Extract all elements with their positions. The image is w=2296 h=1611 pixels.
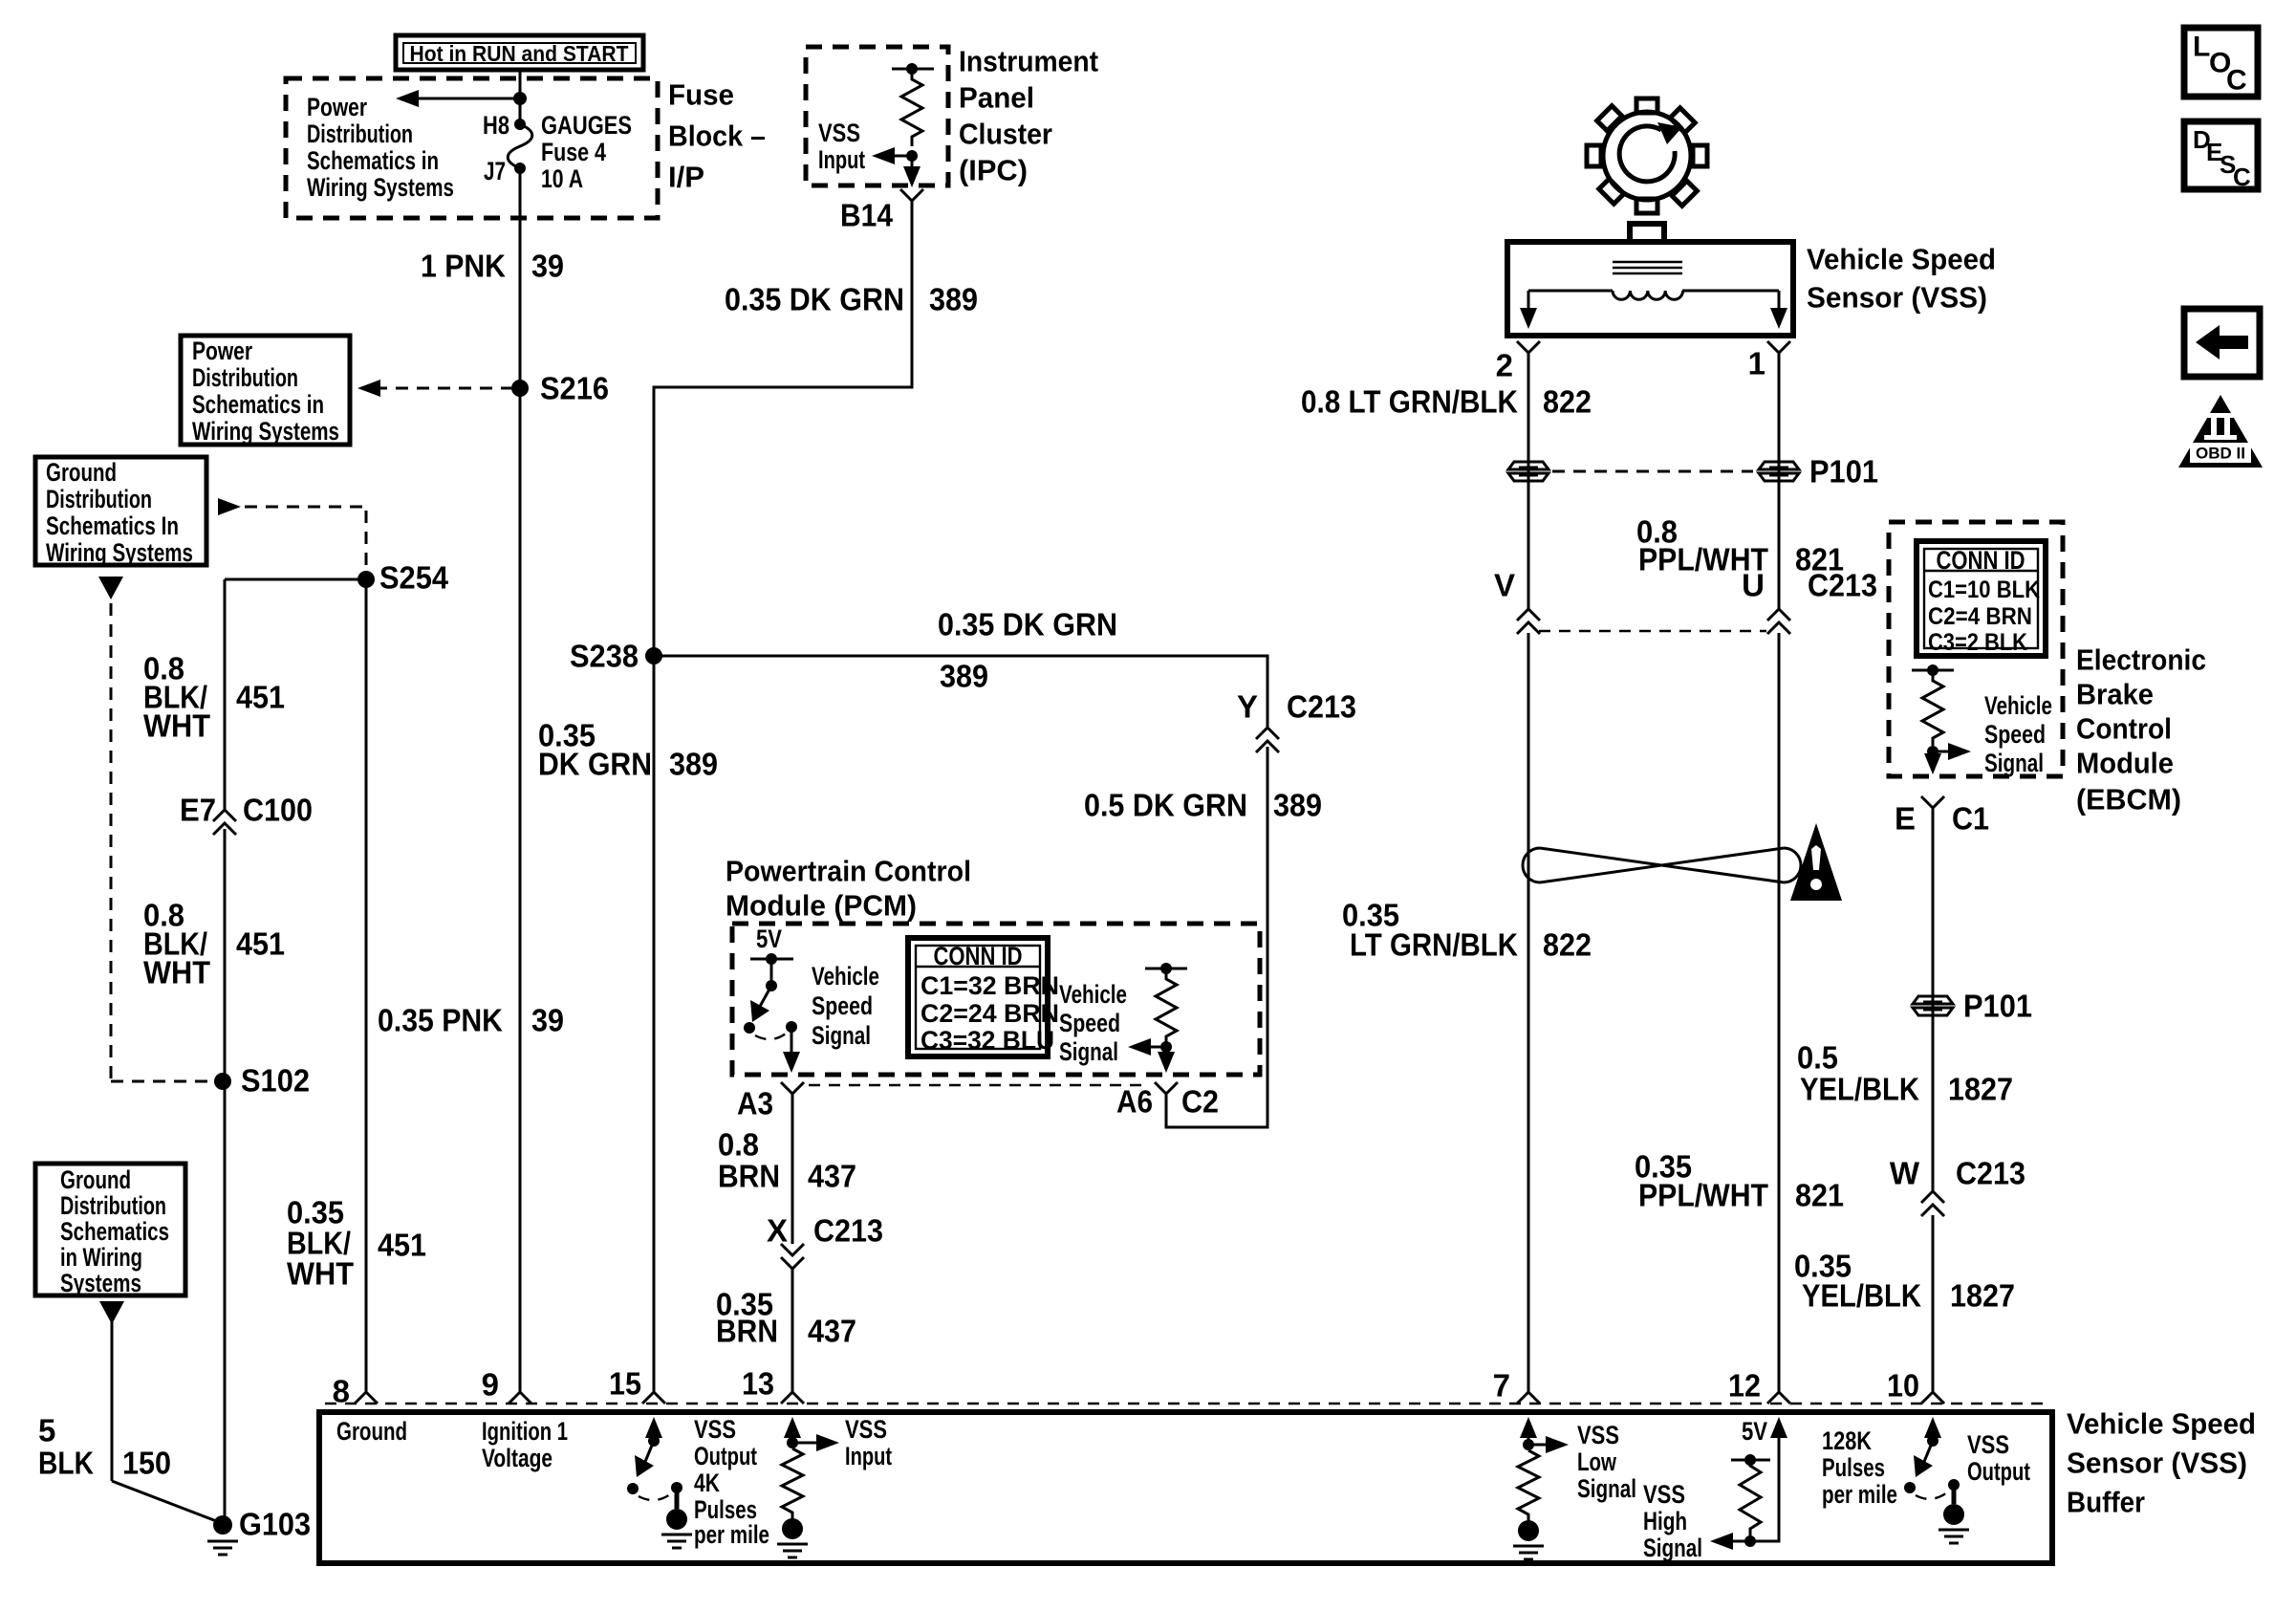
svg-text:C100: C100	[243, 793, 313, 828]
svg-text:Schematics in: Schematics in	[307, 146, 439, 175]
svg-text:Signal: Signal	[1059, 1037, 1118, 1066]
svg-text:H8: H8	[483, 111, 509, 140]
svg-text:Module: Module	[2076, 747, 2174, 780]
svg-text:C: C	[2233, 163, 2251, 191]
icon: LOC box	[2184, 28, 2258, 97]
connector X C213 (double chevron down)	[767, 1213, 883, 1270]
wire: 0.8 BRN 437 from A3 down	[791, 1094, 794, 1244]
label: Vehicle Speed Sensor (VSS)	[1807, 243, 1996, 315]
label: Vehicle Speed Signal (EBCM)	[1984, 691, 2052, 777]
svg-text:Input: Input	[818, 145, 865, 174]
svg-text:Instrument: Instrument	[959, 45, 1098, 78]
svg-text:Distribution: Distribution	[307, 120, 413, 148]
svg-text:C: C	[2226, 65, 2247, 97]
label: 0.35 PPL/WHT 821	[1635, 1149, 1844, 1213]
switch: VSS output 4K (pin 15)	[627, 1417, 682, 1509]
VSS internal output arrows	[1520, 291, 1787, 329]
svg-text:7: 7	[1493, 1368, 1510, 1404]
connector V C213	[1494, 568, 1540, 635]
svg-text:VSS: VSS	[818, 119, 860, 147]
svg-text:389: 389	[929, 282, 978, 317]
svg-text:A3: A3	[737, 1086, 773, 1121]
label: VSS Input (IPC) with arrow	[818, 119, 912, 174]
svg-text:L: L	[2193, 32, 2210, 63]
svg-text:Ground: Ground	[46, 458, 117, 487]
svg-text:Vehicle Speed: Vehicle Speed	[1807, 243, 1996, 276]
svg-text:Ignition 1: Ignition 1	[482, 1417, 568, 1446]
svg-text:C3=32 BLU: C3=32 BLU	[921, 1026, 1054, 1055]
svg-text:Wiring Systems: Wiring Systems	[46, 538, 193, 567]
dashed arrow from ground box to S254	[218, 498, 366, 572]
wire: S238 to Y C213	[654, 656, 1267, 727]
svg-text:Low: Low	[1577, 1448, 1617, 1476]
box: Ground Distribution Schematics In Wiring Systems	[35, 457, 206, 567]
wire: 0.35 DK GRN 389 from B14 to S238	[654, 201, 912, 1392]
dashed arrow from S216 to power distribution box	[357, 380, 511, 397]
switch: VSS output (pin 10)	[1904, 1417, 1960, 1504]
resistor: VSS low signal (pin 7)	[1518, 1417, 1569, 1523]
fuse block dashed box (Fuse Block - I/P)	[286, 78, 658, 218]
fuse F4 GAUGES Fuse 4 10 A	[483, 111, 632, 193]
wire: feed from Hot box into fuse block	[519, 70, 522, 124]
resistor: IPC VSS input pull-up	[892, 63, 934, 162]
svg-text:Sensor (VSS): Sensor (VSS)	[1807, 281, 1987, 315]
svg-text:9: 9	[482, 1367, 499, 1403]
svg-text:Y: Y	[1237, 689, 1258, 725]
svg-text:1827: 1827	[1950, 1278, 2015, 1314]
svg-text:Wiring Systems: Wiring Systems	[307, 173, 454, 202]
svg-text:G103: G103	[239, 1507, 311, 1542]
connector Y C213 (double chevron)	[1237, 689, 1356, 753]
dashed arrow from ground box down to S102	[98, 577, 212, 1081]
svg-text:YEL/BLK: YEL/BLK	[1800, 1072, 1919, 1107]
svg-text:S254: S254	[379, 560, 449, 596]
label: 0.5 YEL/BLK 1827	[1797, 1040, 2013, 1107]
svg-text:Power: Power	[307, 93, 367, 121]
svg-text:Power: Power	[192, 337, 252, 365]
svg-text:0.35 PNK: 0.35 PNK	[378, 1003, 503, 1038]
svg-text:VSS: VSS	[845, 1415, 887, 1444]
VSS pickup coil core	[1613, 262, 1682, 273]
svg-text:0.5 DK GRN: 0.5 DK GRN	[1084, 788, 1247, 823]
svg-text:Fuse 4: Fuse 4	[541, 138, 606, 166]
svg-text:X: X	[767, 1213, 788, 1249]
dashed connector face C2 between A3 and A6	[809, 1084, 1149, 1086]
svg-text:1827: 1827	[1948, 1072, 2013, 1107]
grommet P101 right	[1759, 462, 1799, 481]
svg-text:Signal: Signal	[1577, 1474, 1636, 1503]
svg-text:Buffer: Buffer	[2067, 1486, 2145, 1519]
twisted pair symbol	[1523, 848, 1801, 882]
warning triangle symbol	[1790, 823, 1842, 901]
svg-text:Speed: Speed	[1059, 1009, 1120, 1037]
svg-text:C1: C1	[1952, 801, 1989, 837]
svg-text:Input: Input	[845, 1442, 892, 1470]
wire: 0.5 YEL/BLK 1827 from EBCM to buffer pin 10	[1932, 808, 1935, 1192]
table: EBCM CONN ID	[1917, 541, 2046, 656]
wire: branch arrow to power distribution	[396, 90, 527, 107]
svg-text:CONN ID: CONN ID	[1937, 546, 2025, 575]
connector E7 C100 (double chevron)	[180, 793, 313, 836]
connector pin 9	[482, 1367, 531, 1404]
ground G103	[207, 1507, 311, 1556]
connector pin B14	[840, 189, 923, 233]
svg-text:U: U	[1742, 568, 1765, 603]
svg-text:C213: C213	[1808, 568, 1877, 603]
svg-text:(IPC): (IPC)	[959, 154, 1028, 187]
resistor: VSS high signal pull-up (pin 12)	[1710, 1417, 1787, 1550]
svg-text:BRN: BRN	[716, 1314, 778, 1349]
svg-text:Wiring Systems: Wiring Systems	[192, 417, 339, 446]
svg-text:Vehicle: Vehicle	[1059, 980, 1127, 1009]
svg-text:OBD II: OBD II	[2196, 445, 2245, 463]
label: 0.35 DK GRN 389 (S238 branch)	[538, 718, 718, 782]
svg-text:Speed: Speed	[1984, 720, 2046, 749]
wire: 1 PNK 39 from fuse to S216	[519, 168, 522, 1392]
svg-text:Voltage: Voltage	[482, 1444, 552, 1472]
label: 0.8 PPL/WHT 821	[1636, 514, 1844, 577]
svg-text:BLK: BLK	[38, 1446, 94, 1481]
svg-text:451: 451	[236, 680, 285, 715]
svg-text:A6: A6	[1116, 1084, 1153, 1120]
icon: back arrow box	[2184, 309, 2260, 377]
svg-text:(EBCM): (EBCM)	[2076, 783, 2181, 816]
svg-text:WHT: WHT	[143, 708, 210, 744]
svg-text:E: E	[1895, 801, 1916, 837]
connector pin A3	[737, 1082, 804, 1121]
dashed connector face along buffer top	[325, 1403, 2046, 1404]
dashed connector face C213	[1539, 630, 1766, 632]
label: Hot in RUN and START box	[396, 35, 643, 70]
wire: 0.8 LT GRN/BLK 822 (pin 2 down)	[1527, 353, 1530, 610]
connector pin 7	[1493, 1368, 1540, 1404]
label: Ignition 1 Voltage (pin 9)	[482, 1417, 568, 1472]
svg-text:5V: 5V	[1742, 1417, 1767, 1446]
note: Power Distribution Schematics in Wiring Systems (fuse box)	[307, 93, 454, 202]
svg-text:Distribution: Distribution	[46, 485, 152, 513]
svg-text:DK GRN: DK GRN	[538, 747, 652, 782]
svg-text:Signal: Signal	[1984, 749, 2044, 777]
wire: IPC output arrow to B14	[903, 156, 921, 187]
svg-text:Ground: Ground	[336, 1417, 407, 1446]
wire: 0.8 PPL/WHT 821 (pin 1 down)	[1778, 353, 1781, 610]
box: Vehicle Speed Sensor (VSS)	[1507, 224, 1793, 336]
svg-text:Panel: Panel	[959, 81, 1034, 115]
svg-text:13: 13	[742, 1366, 774, 1402]
connector pin 8	[333, 1374, 378, 1409]
connector pin A6 C2	[1116, 1082, 1219, 1120]
splice S102	[214, 1063, 310, 1099]
svg-text:10 A: 10 A	[541, 164, 583, 193]
box: Power Distribution Schematics in Wiring Systems	[181, 336, 350, 446]
ground: pin-10 switch contact	[1939, 1504, 1969, 1543]
box: EBCM dashed	[1889, 522, 2063, 776]
svg-text:I/P: I/P	[668, 161, 704, 194]
svg-text:S216: S216	[540, 371, 609, 406]
label: VSS Low Signal	[1577, 1421, 1636, 1503]
svg-text:0.35 DK GRN: 0.35 DK GRN	[938, 607, 1117, 642]
svg-text:Distribution: Distribution	[60, 1191, 166, 1220]
svg-text:VSS: VSS	[1577, 1421, 1619, 1449]
label: Vehicle Speed Signal (PCM right)	[1059, 980, 1127, 1066]
svg-text:Vehicle Speed: Vehicle Speed	[2067, 1407, 2256, 1441]
svg-text:Control: Control	[2076, 712, 2172, 746]
wire: S254 horizontal to 451 branch	[225, 578, 366, 581]
table: PCM CONN ID	[908, 938, 1059, 1056]
box: Instrument Panel Cluster (IPC) dashed	[806, 47, 948, 185]
svg-text:822: 822	[1543, 927, 1592, 963]
label: Powertrain Control Module (PCM)	[726, 855, 971, 923]
svg-text:Schematics in: Schematics in	[192, 390, 324, 419]
svg-text:Module (PCM): Module (PCM)	[726, 889, 917, 923]
svg-text:C2: C2	[1181, 1084, 1219, 1120]
label: Fuse Block - I/P	[668, 78, 766, 194]
svg-text:437: 437	[808, 1314, 856, 1349]
box: Ground Distribution Schematics in Wiring Systems (lower)	[35, 1164, 185, 1297]
svg-text:WHT: WHT	[287, 1256, 354, 1292]
svg-text:5V: 5V	[756, 925, 782, 953]
svg-text:Distribution: Distribution	[192, 363, 298, 392]
svg-text:CONN ID: CONN ID	[934, 942, 1023, 970]
svg-text:389: 389	[940, 659, 988, 694]
label: 0.8 BLK/WHT 451 (upper)	[143, 651, 285, 744]
svg-text:451: 451	[236, 926, 285, 962]
svg-text:5: 5	[38, 1413, 55, 1448]
grommet P101 (EBCM lead)	[1913, 996, 1953, 1015]
svg-text:2: 2	[1496, 348, 1513, 383]
svg-text:Output: Output	[1967, 1457, 2030, 1486]
svg-text:0.8 LT GRN/BLK: 0.8 LT GRN/BLK	[1301, 384, 1518, 420]
ground: pin-15 switch contact	[661, 1509, 692, 1548]
wire: 451 below C100 to S102	[224, 829, 227, 1525]
svg-text:E7: E7	[180, 793, 216, 828]
svg-text:1: 1	[1748, 346, 1765, 381]
svg-text:Pulses: Pulses	[1822, 1453, 1885, 1482]
connector pin E C1	[1895, 796, 1989, 837]
svg-text:389: 389	[669, 747, 718, 782]
svg-text:0.5: 0.5	[1797, 1040, 1838, 1076]
svg-text:0.8: 0.8	[718, 1127, 759, 1163]
svg-text:J7: J7	[484, 157, 506, 185]
svg-text:Schematics: Schematics	[60, 1217, 169, 1246]
connector U C213	[1742, 568, 1877, 635]
svg-text:Signal: Signal	[1643, 1534, 1702, 1562]
label: Instrument Panel Cluster (IPC)	[959, 45, 1098, 187]
svg-text:C1=32 BRN: C1=32 BRN	[921, 971, 1059, 1000]
svg-text:437: 437	[808, 1159, 856, 1194]
svg-text:Schematics In: Schematics In	[46, 512, 179, 540]
icon: DESC box	[2184, 121, 2258, 191]
box: PCM dashed	[732, 924, 1260, 1075]
connector pin 12	[1728, 1368, 1790, 1404]
icon: OBD II triangle	[2178, 395, 2263, 468]
svg-text:Block –: Block –	[668, 120, 766, 153]
svg-text:Hot in RUN and START: Hot in RUN and START	[410, 41, 629, 66]
VSS pickup coil winding	[1528, 291, 1779, 299]
label: Vehicle Speed Signal (PCM left)	[812, 962, 879, 1050]
svg-text:B14: B14	[840, 198, 894, 233]
svg-text:Sensor (VSS): Sensor (VSS)	[2067, 1447, 2247, 1480]
svg-text:PPL/WHT: PPL/WHT	[1638, 1178, 1768, 1213]
svg-text:C213: C213	[1287, 689, 1356, 725]
svg-text:Vehicle: Vehicle	[812, 962, 879, 991]
resistor: VSS input node (pin 13)	[782, 1417, 839, 1521]
connector pin 10	[1887, 1368, 1944, 1404]
resistor: PCM vehicle speed signal pull-up	[1128, 963, 1187, 1073]
label: Vehicle Speed Sensor (VSS) Buffer	[2067, 1407, 2256, 1519]
svg-text:GAUGES: GAUGES	[541, 111, 632, 140]
svg-text:in Wiring: in Wiring	[60, 1243, 142, 1272]
dashed pass-through P101	[1552, 470, 1753, 473]
svg-text:0.35 DK GRN: 0.35 DK GRN	[725, 282, 904, 317]
connector pin 15	[609, 1366, 665, 1404]
svg-text:LT GRN/BLK: LT GRN/BLK	[1350, 927, 1518, 963]
label: 0.5 DK GRN 389	[1084, 788, 1322, 823]
svg-text:822: 822	[1543, 384, 1592, 420]
svg-text:8: 8	[333, 1374, 350, 1409]
svg-text:P101: P101	[1809, 454, 1878, 490]
label: Electronic Brake Control Module (EBCM)	[2076, 643, 2206, 816]
svg-text:VSS: VSS	[1643, 1480, 1685, 1509]
svg-text:821: 821	[1795, 1178, 1844, 1213]
splice S254	[357, 560, 449, 596]
connector pins 2 and 1 below VSS	[1496, 341, 1790, 383]
ground: pin-7 resistor	[1513, 1520, 1544, 1559]
label: 0.8 BLK/WHT 451 (lower)	[143, 898, 285, 991]
svg-text:P101: P101	[1963, 989, 2032, 1024]
wire: 451 branch down from S254 to G103	[224, 579, 227, 809]
svg-text:Brake: Brake	[2076, 678, 2154, 711]
label: 0.35 YEL/BLK 1827	[1794, 1249, 2015, 1314]
wire: PCM switch output to A3	[783, 1027, 800, 1073]
svg-text:1 PNK: 1 PNK	[421, 249, 506, 284]
label: 0.8 BRN 437	[718, 1127, 856, 1194]
label: 0.35 DK GRN 389 (top)	[725, 282, 978, 317]
svg-text:VSS: VSS	[694, 1415, 736, 1444]
svg-text:S102: S102	[241, 1063, 310, 1099]
svg-text:Cluster: Cluster	[959, 118, 1052, 151]
svg-text:BRN: BRN	[718, 1159, 780, 1194]
svg-text:451: 451	[378, 1228, 426, 1263]
svg-text:39: 39	[531, 249, 564, 284]
splice S216	[511, 371, 609, 406]
svg-text:per mile: per mile	[694, 1520, 769, 1549]
svg-text:WHT: WHT	[143, 955, 210, 991]
connector pin 13	[742, 1366, 804, 1404]
svg-text:389: 389	[1273, 788, 1322, 823]
svg-text:S238: S238	[570, 639, 639, 674]
label: 0.8 LT GRN/BLK 822	[1301, 384, 1592, 420]
svg-text:V: V	[1494, 568, 1515, 603]
svg-text:15: 15	[609, 1366, 641, 1402]
svg-text:Signal: Signal	[812, 1021, 871, 1050]
resistor: EBCM vehicle speed signal	[1912, 664, 1971, 774]
svg-text:YEL/BLK: YEL/BLK	[1802, 1278, 1921, 1314]
svg-text:C3=2 BLK: C3=2 BLK	[1928, 629, 2027, 656]
label: VSS Output 4K Pulses per mile	[694, 1415, 769, 1549]
svg-text:39: 39	[531, 1003, 564, 1038]
label: 0.35 BLK/WHT 451	[287, 1195, 426, 1292]
svg-text:10: 10	[1887, 1368, 1919, 1404]
label: VSS High Signal	[1643, 1480, 1702, 1562]
label: 0.35 LT GRN/BLK 822	[1342, 898, 1592, 963]
svg-text:4K: 4K	[694, 1469, 720, 1497]
connector W C213	[1890, 1156, 2025, 1217]
svg-text:High: High	[1643, 1507, 1687, 1535]
label: 0.35 BRN 437	[716, 1287, 856, 1349]
splice S238	[570, 639, 662, 674]
svg-text:C2=24 BRN: C2=24 BRN	[921, 999, 1059, 1028]
wire: 5 BLK 150 ground lead with arrow	[99, 1301, 219, 1522]
svg-text:12: 12	[1728, 1368, 1761, 1404]
svg-text:C213: C213	[813, 1213, 883, 1249]
label: 5 BLK 150	[38, 1413, 171, 1481]
label: 1 PNK 39	[421, 249, 564, 284]
svg-text:128K: 128K	[1822, 1426, 1872, 1455]
svg-text:Electronic: Electronic	[2076, 643, 2206, 677]
wire: 451 from S254 down to buffer pin 8	[365, 579, 368, 1392]
svg-text:Fuse: Fuse	[668, 78, 734, 112]
ground: pin-13 resistor	[777, 1518, 808, 1557]
svg-text:C213: C213	[1956, 1156, 2025, 1191]
svg-text:C2=4 BRN: C2=4 BRN	[1928, 603, 2032, 630]
label: 0.35 PNK 39	[378, 1003, 564, 1038]
label: VSS Input (buffer)	[845, 1415, 892, 1470]
grommet P101 left	[1508, 462, 1549, 481]
switch: PCM vehicle speed signal	[744, 953, 797, 1039]
svg-text:Speed: Speed	[812, 991, 873, 1020]
svg-text:Systems: Systems	[60, 1269, 141, 1297]
svg-text:Vehicle: Vehicle	[1984, 691, 2052, 720]
svg-text:per mile: per mile	[1822, 1480, 1897, 1509]
label: 128K Pulses per mile	[1822, 1426, 1897, 1509]
svg-text:150: 150	[122, 1446, 171, 1481]
reluctor gear (tone wheel) above VSS	[1564, 73, 1730, 239]
svg-text:C1=10 BLK: C1=10 BLK	[1928, 577, 2040, 603]
box: Vehicle Speed Sensor (VSS) Buffer	[319, 1412, 2052, 1563]
label: VSS Output (pin 10)	[1967, 1430, 2030, 1486]
svg-text:Output: Output	[694, 1442, 757, 1470]
svg-text:VSS: VSS	[1967, 1430, 2009, 1459]
svg-text:Ground: Ground	[60, 1165, 131, 1194]
svg-text:Powertrain Control: Powertrain Control	[726, 855, 971, 888]
svg-text:W: W	[1890, 1156, 1920, 1191]
wire: 0.5 DK GRN 389 from C213 down and around to PCM A6	[1166, 747, 1267, 1127]
